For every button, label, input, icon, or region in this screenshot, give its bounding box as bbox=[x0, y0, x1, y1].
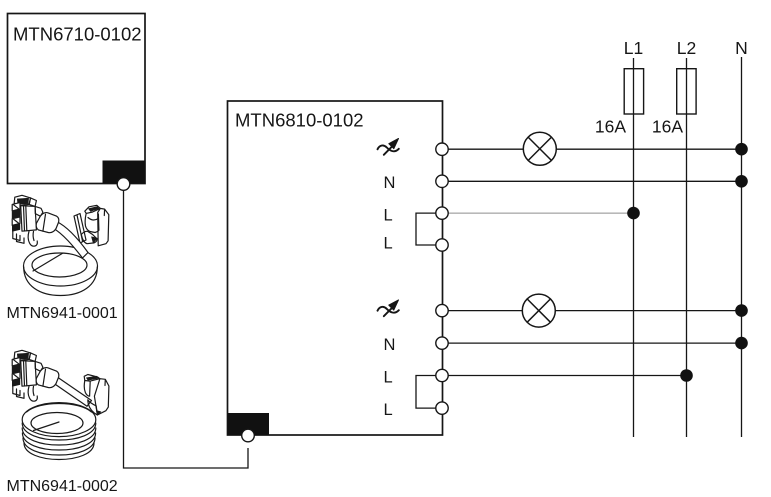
svg-text:L: L bbox=[384, 369, 393, 387]
svg-text:N: N bbox=[384, 336, 396, 354]
right connector body bbox=[94, 379, 109, 415]
left connector body bbox=[29, 353, 36, 362]
left connector bottom hooks bbox=[13, 232, 24, 244]
left connector bottom hooks bbox=[13, 387, 24, 399]
left connector body bbox=[29, 198, 36, 207]
terminal circle of MTN6810 socket bbox=[242, 429, 255, 442]
left connector pins (dark) bbox=[12, 358, 20, 366]
left connector top cap bbox=[14, 195, 30, 205]
right connector foot bbox=[88, 400, 98, 415]
dark wedge under tube at right connector bbox=[92, 237, 98, 244]
wire from MTN6710 socket to MTN6810 socket bbox=[124, 190, 249, 468]
svg-text:MTN6941-0001: MTN6941-0001 bbox=[7, 305, 118, 322]
svg-text:16A: 16A bbox=[595, 117, 626, 137]
connector socket of MTN6710 (black block) bbox=[103, 161, 146, 184]
right connector collar bbox=[85, 213, 99, 232]
right connector foot bbox=[81, 231, 97, 244]
svg-text:MTN6810-0102: MTN6810-0102 bbox=[235, 109, 364, 130]
terminal circles on right edge of MTN6810 bbox=[436, 143, 448, 414]
wire: L terminal ch2 to L2 line bbox=[448, 375, 687, 377]
terminal L ch1 bbox=[436, 207, 448, 219]
terminal N ch2 bbox=[436, 337, 448, 349]
junction dot: ch2 N wire to N bus bbox=[735, 337, 748, 350]
junction dot: ch1 N wire to N bus bbox=[735, 175, 748, 188]
svg-text:16A: 16A bbox=[652, 117, 683, 137]
power supply unit MTN6710-0102 box bbox=[8, 14, 146, 184]
svg-text:L: L bbox=[384, 207, 393, 225]
wire: N terminal ch2 to N bus bbox=[448, 342, 742, 344]
mains line N bbox=[741, 57, 743, 437]
dimmer module MTN6810-0102 box bbox=[228, 101, 443, 435]
right connector top cap (dark) bbox=[84, 375, 100, 382]
left connector ear hook bbox=[28, 231, 37, 246]
terminal N ch1 bbox=[436, 175, 448, 187]
cable loop inner opening bbox=[32, 253, 87, 277]
left connector top cap bbox=[14, 350, 30, 360]
cable seen through coil opening bbox=[34, 422, 60, 431]
left connector neck bbox=[35, 206, 43, 216]
connector socket of MTN6810 (black block) bbox=[228, 413, 270, 435]
left connector neck bbox=[35, 361, 43, 371]
terminal L2 ch2 bbox=[436, 402, 448, 414]
right connector collar bbox=[84, 381, 90, 397]
lamp load channel 1 bbox=[523, 132, 556, 165]
wire: L terminal ch1 to L1 line (faint in scan) bbox=[448, 212, 634, 214]
svg-text:L2: L2 bbox=[677, 38, 696, 58]
svg-text:L: L bbox=[384, 401, 393, 419]
cable tube from gland to right connector bbox=[52, 377, 91, 407]
svg-text:N: N bbox=[735, 38, 748, 58]
left connector ear hook bbox=[28, 386, 37, 401]
cable assembly MTN6941-0002 bbox=[12, 350, 109, 459]
mains line L2 bbox=[686, 58, 688, 437]
svg-text:MTN6941-0002: MTN6941-0002 bbox=[7, 478, 118, 495]
terminal dimmer out ch2 bbox=[436, 304, 448, 316]
terminal L2 ch1 bbox=[436, 239, 448, 251]
cable coil second turn top bbox=[27, 404, 92, 413]
junction dot: ch2 dimmer wire to N bus bbox=[735, 304, 748, 317]
junction dot: ch1 L wire to L1 bbox=[627, 207, 640, 220]
cable assembly MTN6941-0001 bbox=[12, 195, 109, 295]
bracket linking L terminals channel 2 bbox=[416, 376, 436, 409]
fuse 16A on L2 bbox=[677, 69, 696, 114]
mains line L1 bbox=[633, 58, 635, 437]
cable tube from gland to loop bbox=[52, 222, 88, 259]
cable gland left bbox=[36, 213, 59, 233]
cable coil outer ring bbox=[22, 403, 96, 437]
junction dot: ch1 dimmer wire to N bus bbox=[735, 143, 748, 156]
dimmed output symbol channel 2 bbox=[378, 300, 399, 316]
cable coil lower turns bbox=[22, 423, 96, 440]
svg-text:N: N bbox=[384, 174, 396, 192]
wire: dimmer out ch2 to N bus bbox=[448, 310, 742, 312]
svg-text:MTN6710-0102: MTN6710-0102 bbox=[13, 24, 142, 45]
junction dot: ch2 L wire to L2 bbox=[680, 369, 693, 382]
right connector wing slab bbox=[74, 214, 86, 244]
cable seen through loop opening bbox=[33, 253, 63, 271]
terminal circle of MTN6710 socket bbox=[117, 178, 130, 191]
svg-text:L: L bbox=[384, 235, 393, 253]
terminal dimmer out ch1 bbox=[436, 143, 448, 155]
svg-text:L1: L1 bbox=[624, 38, 643, 58]
cable loop outer ring bbox=[24, 246, 98, 286]
right connector body bbox=[98, 208, 109, 245]
dark wedge under tube at right connector bbox=[96, 411, 101, 416]
lamp load channel 2 bbox=[522, 294, 555, 327]
wire: dimmer out ch1 to N bus bbox=[448, 148, 742, 150]
dimmed output symbol channel 1 bbox=[378, 139, 399, 155]
bracket linking L terminals channel 1 bbox=[416, 213, 436, 245]
left connector pins (dark) bbox=[12, 203, 20, 211]
cable gland left bbox=[36, 368, 59, 388]
fuse 16A on L1 bbox=[624, 69, 643, 114]
cable loop bottom rim bbox=[24, 267, 98, 296]
terminal L ch2 bbox=[436, 369, 448, 381]
wire: N terminal ch1 to N bus bbox=[448, 180, 742, 182]
cable coil inner opening bbox=[31, 413, 83, 434]
right connector top cap (dark) bbox=[85, 205, 101, 213]
